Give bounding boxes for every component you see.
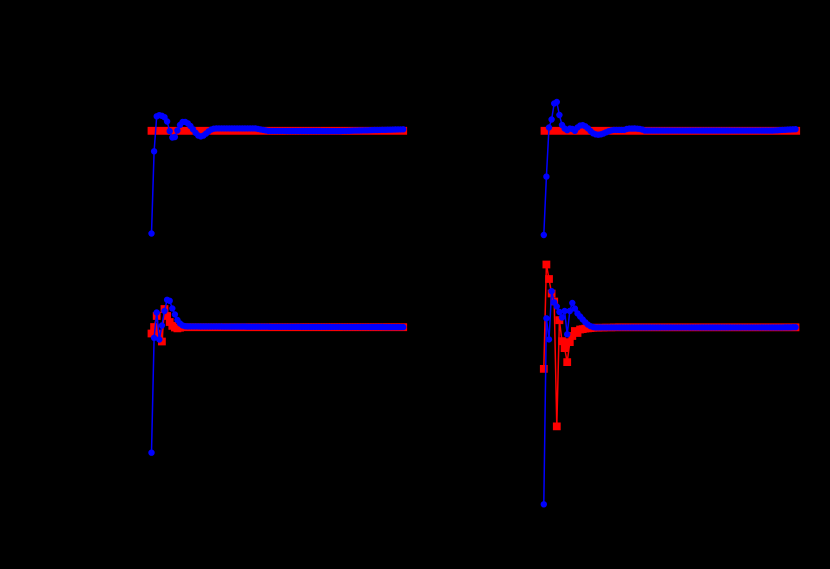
bottom-right blue estimate trace [541, 288, 799, 508]
top-right red true-value trace [541, 127, 801, 135]
bottom-right red true-value trace [540, 261, 800, 431]
top-right blue estimate trace [541, 99, 799, 238]
bottom-left red true-value trace [148, 305, 408, 345]
top-left blue estimate trace [148, 112, 406, 237]
top-left red true-value trace [148, 127, 408, 135]
bottom-left blue estimate trace [148, 297, 406, 456]
